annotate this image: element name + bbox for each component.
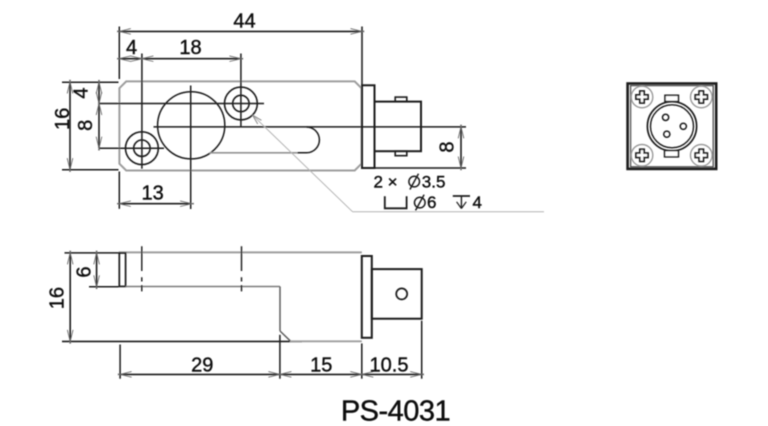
svg-text:8: 8 (75, 120, 97, 131)
svg-text:10.5: 10.5 (370, 354, 409, 376)
svg-text:16: 16 (52, 108, 74, 130)
svg-text:6: 6 (73, 266, 95, 277)
svg-text:4: 4 (126, 37, 137, 59)
svg-text:3.5: 3.5 (422, 172, 446, 191)
svg-text:16: 16 (46, 287, 68, 309)
svg-text:8: 8 (436, 141, 458, 152)
svg-text:6: 6 (427, 193, 436, 212)
svg-text:29: 29 (191, 354, 213, 376)
svg-text:13: 13 (141, 183, 163, 205)
svg-text:2 ×: 2 × (374, 172, 398, 191)
svg-text:15: 15 (310, 354, 332, 376)
svg-text:4: 4 (71, 87, 93, 98)
svg-text:PS-4031: PS-4031 (341, 395, 450, 426)
svg-text:44: 44 (233, 11, 255, 33)
svg-text:4: 4 (473, 193, 482, 212)
svg-text:18: 18 (179, 37, 201, 59)
